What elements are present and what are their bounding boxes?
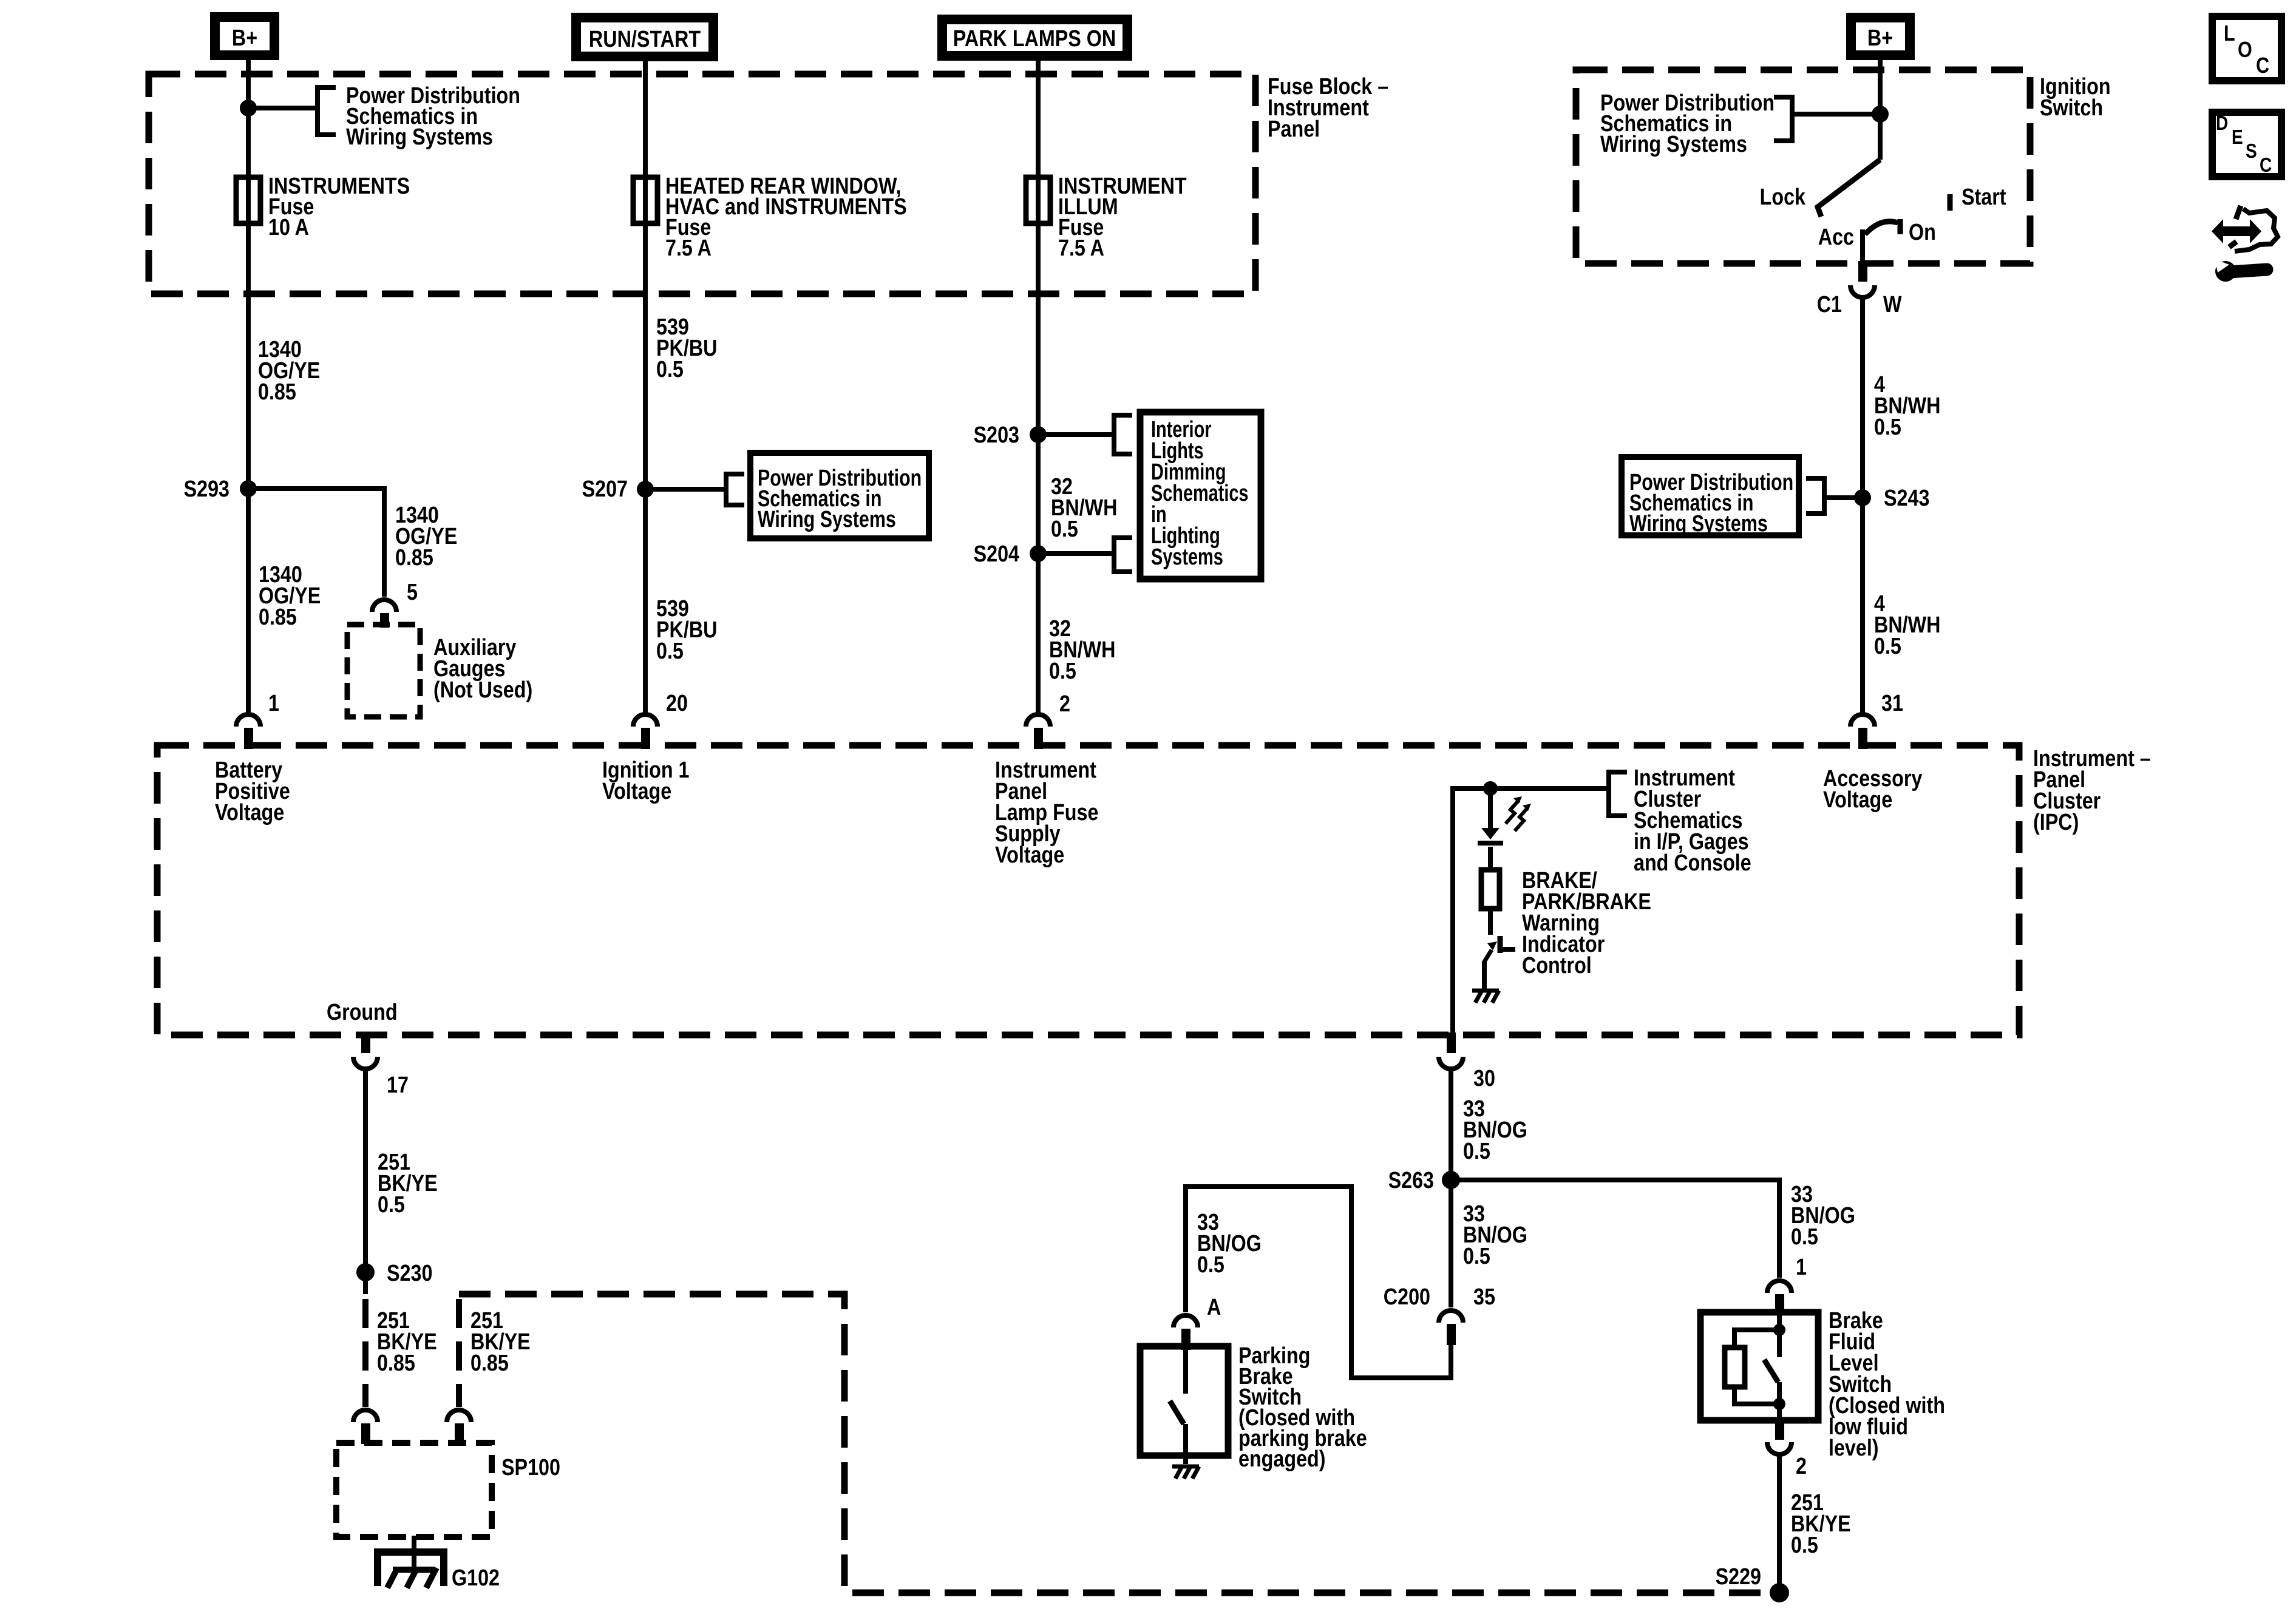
wire S204 to bracket <box>1038 551 1114 556</box>
svg-text:Wiring Systems: Wiring Systems <box>346 124 493 150</box>
svg-text:engaged): engaged) <box>1238 1446 1326 1472</box>
reference bracket power distribution reference (left) <box>318 87 336 135</box>
DESC box <box>2212 112 2281 177</box>
label wire 251 BK/YE 0.85 (right) <box>470 1308 531 1376</box>
ground (IPC internal) <box>1472 991 1499 1003</box>
indicator illumination arrows <box>1506 796 1531 831</box>
connector 1 IPC battery positive <box>236 714 260 749</box>
label Battery Positive Voltage <box>215 758 290 825</box>
reference bracket power distribution reference (S243) <box>1806 478 1824 514</box>
wire to S229 <box>1777 1456 1782 1593</box>
svg-text:and Console: and Console <box>1634 850 1751 876</box>
label BRAKE/ PARK/BRAKE Warning Indicator Control <box>1522 868 1651 978</box>
svg-text:0.5: 0.5 <box>1791 1533 1818 1558</box>
Fuse Block - Instrument Panel dashed box <box>149 74 1255 294</box>
svg-text:Wiring Systems: Wiring Systems <box>1629 511 1768 537</box>
svg-text:C1: C1 <box>1817 292 1842 317</box>
box Power Distribution Schematics in Wiring Systems (middle) <box>750 453 929 538</box>
node indicator branch junction <box>1483 781 1498 796</box>
connector 2 exit <box>1767 1420 1792 1454</box>
Instrument Panel Cluster dashed box <box>157 745 2019 1035</box>
connector SP100 left <box>353 1410 378 1444</box>
svg-text:G102: G102 <box>452 1565 500 1591</box>
label wire 33 BN/OG 0.5 (above S263) <box>1463 1096 1527 1164</box>
svg-text:S203: S203 <box>974 422 1019 448</box>
resistor (indicator driver) <box>1481 870 1500 909</box>
box Power Distribution Schematics in Wiring Systems (right) <box>1622 457 1799 535</box>
label Brake Fluid Level Switch (Closed with low fluid level) <box>1829 1308 1945 1461</box>
LED indicator diode <box>1478 828 1503 846</box>
svg-text:0.5: 0.5 <box>1051 517 1078 542</box>
connector SP100 right <box>447 1410 471 1444</box>
wire bracket to S243 <box>1824 495 1863 500</box>
svg-text:Ground: Ground <box>327 1000 398 1025</box>
brake fluid level switch box <box>1700 1312 1818 1420</box>
svg-text:0.85: 0.85 <box>395 545 433 571</box>
label wire 1340 OG/YE 0.85 (above S293) <box>258 337 320 405</box>
svg-text:C: C <box>2260 154 2272 177</box>
svg-text:0.5: 0.5 <box>656 639 684 664</box>
svg-text:Wiring Systems: Wiring Systems <box>758 507 896 532</box>
connector 1 brake fluid level switch <box>1767 1281 1792 1315</box>
node S293 <box>184 476 257 502</box>
wire LED to resistor <box>1488 847 1493 870</box>
svg-text:0.85: 0.85 <box>377 1351 415 1376</box>
wire RUN/START vertical <box>643 61 648 713</box>
node junction at fuse block feed <box>240 100 257 117</box>
svg-text:0.85: 0.85 <box>258 379 296 405</box>
label wire 33 BN/OG 0.5 (right branch) <box>1791 1182 1855 1250</box>
svg-text:Control: Control <box>1522 953 1592 978</box>
reference bracket power distribution reference (S207) <box>726 474 744 505</box>
wire SP100 to G102 <box>412 1536 416 1570</box>
connector 35 C200 <box>1439 1310 1463 1345</box>
reference bracket lighting reference (S203) <box>1114 415 1132 454</box>
node ignition feed junction <box>1872 106 1889 123</box>
svg-text:0.5: 0.5 <box>656 357 684 382</box>
label wire 251 BK/YE 0.5 (bottom) <box>1791 1490 1851 1558</box>
svg-text:(Not Used): (Not Used) <box>433 677 532 703</box>
svg-text:Panel: Panel <box>1268 117 1320 142</box>
svg-text:0.5: 0.5 <box>1463 1244 1490 1269</box>
dashed return path to SP100 <box>459 1294 1765 1593</box>
wire 33 BN/OG to S263 <box>1449 1070 1453 1180</box>
svg-text:S263: S263 <box>1388 1168 1434 1193</box>
Acc-On travel arc <box>1865 222 1898 234</box>
label wire 32 BN/WH 0.5 (below S204) <box>1049 616 1115 684</box>
label Ignition 1 Voltage <box>602 758 689 804</box>
svg-text:Voltage: Voltage <box>1823 787 1892 813</box>
svg-text:0.5: 0.5 <box>1874 634 1901 659</box>
auxiliary gauges dashed box <box>347 625 420 717</box>
wire IPC internal vertical (indicator feed) <box>1453 788 1609 1035</box>
svg-text:1: 1 <box>268 691 279 716</box>
svg-text:S204: S204 <box>974 541 1020 567</box>
svg-text:RUN/START: RUN/START <box>589 27 701 52</box>
svg-text:Voltage: Voltage <box>215 800 284 825</box>
node S203 <box>974 422 1047 448</box>
label Ignition Switch <box>2040 74 2111 121</box>
Start contact tick <box>1948 194 1953 211</box>
wire dashed continuation left <box>362 1299 369 1407</box>
svg-text:0.5: 0.5 <box>1197 1252 1224 1278</box>
transistor driver <box>1484 936 1515 963</box>
connector 20 IPC ignition 1 <box>633 714 657 749</box>
svg-text:5: 5 <box>407 580 418 605</box>
label wire 251 BK/YE 0.85 (left) <box>377 1308 437 1376</box>
svg-text:Start: Start <box>1961 185 2006 210</box>
connector A parking brake switch <box>1173 1315 1198 1350</box>
wire branch S293 to auxiliary gauges <box>248 489 384 597</box>
node S229 <box>1716 1564 1789 1602</box>
service hand and wrench icon <box>2212 206 2278 282</box>
wire to indicator LED <box>1488 788 1493 828</box>
wire to reference bracket <box>248 106 318 110</box>
label Instrument - Panel Cluster (IPC) <box>2033 746 2151 835</box>
wire C200 to parking brake switch loop <box>1186 1187 1451 1378</box>
wire C1 to S243 to pin 31 <box>1860 299 1865 713</box>
power feed flag B+ battery feed (left) <box>215 17 274 55</box>
wire Acc contact down to C1 <box>1860 229 1865 265</box>
svg-text:C200: C200 <box>1384 1284 1430 1310</box>
svg-text:0.85: 0.85 <box>259 605 297 630</box>
svg-text:20: 20 <box>666 691 688 716</box>
node S263 <box>1388 1168 1460 1193</box>
wire S263 to brake fluid level switch <box>1451 1180 1779 1278</box>
svg-text:0.5: 0.5 <box>378 1192 405 1218</box>
svg-text:10 A: 10 A <box>268 215 309 240</box>
svg-text:S243: S243 <box>1884 486 1929 511</box>
svg-text:35: 35 <box>1473 1284 1495 1310</box>
connector 17 IPC ground <box>353 1032 378 1069</box>
label wire 1340 OG/YE 0.85 (below S293) <box>259 562 321 630</box>
svg-text:0.85: 0.85 <box>470 1351 509 1376</box>
reference bracket instrument cluster schematics reference <box>1609 772 1627 816</box>
label wire 251 BK/YE 0.5 <box>378 1150 438 1218</box>
svg-text:1: 1 <box>1796 1255 1807 1280</box>
svg-text:2: 2 <box>1796 1454 1807 1479</box>
wire S230 solid stub <box>363 1272 368 1294</box>
wire B+ right vertical <box>1878 60 1883 160</box>
On contact tick <box>1898 219 1903 234</box>
label wire 4 BN/WH 0.5 (below S243) <box>1874 591 1940 659</box>
label Accessory Voltage <box>1823 766 1923 813</box>
svg-text:Acc: Acc <box>1818 225 1854 250</box>
wire resistor to driver <box>1488 909 1493 935</box>
svg-text:level): level) <box>1829 1436 1879 1461</box>
ground (parking brake switch) <box>1172 1466 1199 1479</box>
svg-text:On: On <box>1909 220 1936 245</box>
brake fluid level switch internals <box>1725 1315 1785 1417</box>
label Instrument Cluster Schematics in I/P, Gages and Console <box>1634 765 1751 876</box>
svg-text:S230: S230 <box>387 1261 432 1286</box>
label wire 539 PK/BU 0.5 (above S207) <box>656 314 717 382</box>
svg-text:E: E <box>2232 126 2243 149</box>
svg-text:7.5 A: 7.5 A <box>665 236 712 261</box>
label Interior Lights Dimming Schematics <box>1151 416 1248 570</box>
splice pack SP100 dashed box <box>336 1443 492 1537</box>
svg-text:S229: S229 <box>1716 1564 1761 1590</box>
svg-text:D: D <box>2216 112 2228 135</box>
label Power Distribution Schematics in Wiring Systems (middle) <box>758 466 922 532</box>
svg-text:0.5: 0.5 <box>1791 1224 1818 1250</box>
svg-text:2: 2 <box>1059 691 1070 717</box>
wire PARK LAMPS vertical <box>1036 61 1041 713</box>
wire B+ left vertical <box>246 60 251 713</box>
svg-text:30: 30 <box>1473 1066 1495 1091</box>
wire ground 251 BK/YE <box>363 1070 368 1272</box>
power feed flag PARK LAMPS ON feed <box>942 19 1127 56</box>
svg-text:Wiring Systems: Wiring Systems <box>1600 132 1747 157</box>
node S230 <box>356 1261 432 1286</box>
wire S263 down to C200 <box>1449 1180 1453 1307</box>
wire dashed continuation right <box>456 1299 462 1407</box>
ignition switch dashed box <box>1576 70 2030 263</box>
svg-text:0.5: 0.5 <box>1463 1139 1490 1164</box>
svg-text:W: W <box>1883 292 1902 317</box>
label wire 33 BN/OG 0.5 (below S263) <box>1463 1201 1527 1269</box>
label Power Distribution Schematics in Wiring Systems (right) <box>1629 470 1793 537</box>
svg-text:Systems: Systems <box>1151 544 1223 570</box>
label Fuse Block - Instrument Panel <box>1268 74 1388 142</box>
label wire 32 BN/WH 0.5 (S203-S204) <box>1051 474 1117 542</box>
fuse INSTRUMENT ILLUM 7.5A <box>1026 174 1187 261</box>
svg-text:7.5 A: 7.5 A <box>1058 236 1104 261</box>
connector 2 IPC panel lamp supply <box>1026 714 1050 749</box>
svg-text:SP100: SP100 <box>501 1455 560 1480</box>
wire S203 to bracket <box>1038 432 1114 437</box>
ground G102 <box>378 1552 444 1588</box>
label Auxiliary Gauges (Not Used) <box>433 635 532 703</box>
svg-text:Voltage: Voltage <box>602 779 671 804</box>
svg-text:Switch: Switch <box>2040 95 2103 121</box>
power feed flag RUN/START feed <box>576 18 713 56</box>
connector 31 IPC accessory voltage <box>1850 714 1875 749</box>
svg-text:Voltage: Voltage <box>995 842 1064 868</box>
wire driver to ground <box>1482 961 1487 989</box>
label wire 4 BN/WH 0.5 (above S243) <box>1874 372 1940 440</box>
svg-text:17: 17 <box>387 1073 409 1098</box>
ignition switch blade <box>1818 160 1880 217</box>
label wire 539 PK/BU 0.5 (below S207) <box>656 596 717 664</box>
svg-text:PARK LAMPS ON: PARK LAMPS ON <box>953 26 1116 52</box>
svg-text:0.5: 0.5 <box>1874 415 1901 440</box>
reference bracket lighting reference (S204) <box>1114 538 1132 572</box>
svg-text:S293: S293 <box>184 476 229 502</box>
label wire 33 BN/OG 0.5 (parking brake) <box>1197 1210 1262 1278</box>
svg-text:0.5: 0.5 <box>1049 659 1076 684</box>
node S243 <box>1854 486 1929 511</box>
connector 5 auxiliary gauges <box>372 600 396 628</box>
label Instrument Panel Lamp Fuse Supply Voltage <box>995 758 1098 868</box>
fuse INSTRUMENTS 10A <box>236 174 410 240</box>
reference bracket power distribution reference (ignition) <box>1774 97 1792 141</box>
svg-text:S: S <box>2246 140 2257 163</box>
wire bracket to B+ junction <box>1792 112 1880 117</box>
connector C1 pin W <box>1850 261 1875 297</box>
svg-text:31: 31 <box>1881 691 1903 716</box>
svg-text:S207: S207 <box>582 476 628 502</box>
svg-text:O: O <box>2238 38 2252 63</box>
parking brake switch box <box>1140 1346 1228 1456</box>
svg-text:B+: B+ <box>232 25 257 51</box>
svg-text:A: A <box>1207 1295 1221 1320</box>
svg-text:C: C <box>2256 54 2269 78</box>
node S204 <box>974 541 1047 567</box>
box Interior Lights Dimming Schematics in Lighting Systems <box>1140 412 1261 579</box>
svg-text:B+: B+ <box>1867 25 1893 51</box>
wire S207 to reference bracket <box>645 487 726 492</box>
parking brake switch contact <box>1170 1350 1186 1464</box>
svg-text:Lock: Lock <box>1760 185 1806 210</box>
svg-text:L: L <box>2224 22 2235 46</box>
node S207 <box>582 476 654 502</box>
fuse HEATED REAR WINDOW HVAC INSTRUMENTS 7.5A <box>633 174 907 261</box>
power feed flag B+ battery feed (right) <box>1851 18 1910 55</box>
label Parking Brake Switch (Closed with parking brake engaged) <box>1238 1343 1367 1472</box>
LOC box <box>2212 16 2281 81</box>
label Power Distribution Schematics in Wiring Systems (ignition) <box>1600 90 1775 157</box>
label Power Distribution Schematics in Wiring Systems (fuse block) <box>346 83 520 150</box>
connector 30 IPC brake indicator control <box>1439 1032 1463 1069</box>
label wire 1340 OG/YE 0.85 (branch) <box>395 503 457 571</box>
svg-text:(IPC): (IPC) <box>2033 810 2079 835</box>
